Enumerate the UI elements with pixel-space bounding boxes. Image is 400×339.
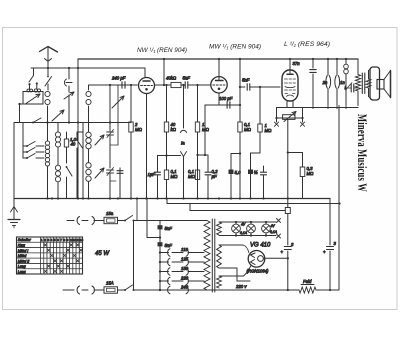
cap 240pF [121,82,123,88]
output transformer primary left wire [345,59,347,64]
svg-text:VG 410: VG 410 [250,243,271,249]
svg-text:Minerva Musicus W: Minerva Musicus W [355,114,369,192]
svg-text:Lang: Lang [18,270,26,274]
svg-text:40: 40 [71,142,76,147]
output tube top wire [289,59,291,73]
rectifier lower wire [219,267,237,269]
pickup connector Ia [183,85,185,128]
padder trimmer C6 [109,123,111,132]
svg-text:Mittel I: Mittel I [18,249,29,253]
coil L2 [45,91,50,96]
dial lamp 1 [232,224,241,233]
svg-text:45 W: 45 W [95,251,110,257]
tube V2 cathode [218,93,220,105]
vertical from grid wire [109,85,111,123]
svg-text:15A: 15A [106,281,114,286]
svg-text:½: ½ [254,170,258,175]
cathode resistor 197 [195,170,199,180]
secondary winding lamps [217,222,222,235]
svg-text:MΩ: MΩ [188,174,196,179]
svg-text:5nF: 5nF [242,78,250,83]
cap small right [263,166,265,172]
svg-text:15a: 15a [106,211,114,216]
svg-text:1µF: 1µF [148,172,156,177]
trimmer arrow C4 [95,135,104,145]
mains vertical pair [133,221,135,291]
lamp wires [219,221,276,223]
tube V2 REN904 [211,77,227,93]
svg-text:7: 7 [60,238,62,242]
svg-text:5,0: 5,0 [235,170,242,175]
trimmer cap C2 variable [64,92,74,99]
svg-text:2: 2 [44,238,46,242]
coupling cap 5nF-2 [246,84,248,90]
wire antenna to switch [31,67,48,69]
svg-text:4: 4 [51,238,53,242]
decoupling cap top right [312,59,314,68]
svg-text:100 pF: 100 pF [219,96,233,101]
svg-text:MΩ: MΩ [171,174,179,179]
rectifier plate wire [219,244,243,246]
svg-text:5: 5 [54,238,56,242]
band switch contacts row [22,123,24,159]
pickup terminal right [302,108,304,123]
svg-text:13: 13 [80,238,84,242]
chassis drop [146,199,148,238]
filter cap 1 [287,214,289,246]
secondary winding HT [217,245,222,268]
plate feed vertical [163,59,165,85]
cathode group wire [158,155,181,157]
trimmer arrow C5 [95,168,104,178]
transformer core 2 [211,219,213,292]
svg-text:Schalter: Schalter [18,238,32,242]
stub wire 2 [110,180,116,182]
grid cap wire across [48,67,145,69]
svg-text:NW ¹/₁ (REN 904): NW ¹/₁ (REN 904) [137,48,187,54]
switch S3 [32,122,34,124]
svg-text:125: 125 [181,257,189,262]
mains switch bottom [124,289,126,291]
svg-text:MΩ: MΩ [307,171,315,176]
svg-text:0,1A: 0,1A [240,231,248,235]
resistor 0,1M a [164,170,168,180]
output transformer primary winding [357,59,359,75]
svg-text:4V: 4V [271,224,276,228]
wire to cap [198,154,209,156]
fuse 15A bottom [104,287,118,293]
secondary winding heater [217,276,222,288]
line cap 5nF a [158,225,163,229]
svg-text:Kurz: Kurz [18,243,26,247]
cap row a [119,168,121,170]
svg-text:Ia: Ia [181,141,185,146]
switch S5 [76,139,78,141]
coupling wire to output tube [240,86,245,88]
plate load resistor 40k [155,84,172,86]
cap 100pF [226,102,228,108]
antenna [40,47,58,53]
rectifier output wire [263,257,287,259]
svg-text:Mittel II: Mittel II [18,259,30,263]
bias rail [190,210,285,212]
coil L5 upper [57,123,59,133]
tube V1 REN904 [139,78,155,94]
antenna coil unit L1 box [23,92,43,105]
B+ vertical right [338,106,340,291]
screen dropper vertical [239,59,241,122]
transformer secondary [368,71,370,80]
svg-text:Lang: Lang [18,265,26,269]
vertical bus from top bus [77,59,79,199]
svg-text:kΩ: kΩ [171,127,177,132]
speaker frame [370,67,380,100]
svg-text:150: 150 [181,266,189,271]
svg-text:MW ¹/₁ (REN 904): MW ¹/₁ (REN 904) [209,45,261,51]
cap blob 0,1b [251,152,261,154]
primary tone cap [346,87,351,89]
svg-text:MΩ: MΩ [135,127,143,132]
svg-text:(RGN1064): (RGN1064) [247,269,270,274]
B+ fuse box [285,208,290,214]
svg-text:µF: µF [212,174,217,179]
coupling cap 5nF [184,82,186,88]
output cathode rail [277,107,359,109]
variable core arrow [26,94,40,104]
switch S1 antenna [33,68,35,76]
svg-text:5nF: 5nF [165,226,173,231]
tone pot [283,115,295,120]
grid resistor 1M output [259,87,261,124]
pickup connector row [67,220,74,222]
coil L3 [88,85,90,90]
svg-text:0,1A: 0,1A [270,230,278,234]
svg-text:1: 1 [41,238,43,242]
band table [17,237,83,274]
svg-text:8: 8 [64,238,66,242]
line cap 5nF b [158,242,163,246]
svg-text:6: 6 [57,238,59,242]
filter cap 2 [327,246,334,248]
svg-text:37n: 37n [293,61,301,66]
svg-text:220 v: 220 v [235,284,247,289]
wave band wire [23,122,131,124]
svg-text:5nF: 5nF [183,76,191,81]
switch S2 [47,68,49,76]
speaker driver [377,80,384,90]
tone caps 2n [327,59,329,75]
output tube legs [286,101,288,108]
bottom rail / field coil [134,289,300,291]
svg-text:220: 220 [180,276,189,281]
cathode network wire [205,104,240,106]
svg-text:L ¹/₁ (RES 964): L ¹/₁ (RES 964) [284,42,330,48]
svg-text:9: 9 [67,238,69,242]
power transformer primary [204,221,210,291]
speaker cone [384,71,391,80]
tube V2 plate feed [218,59,220,80]
svg-text:MΩ: MΩ [244,127,252,132]
coil L5 lower [55,165,60,170]
svg-text:240: 240 [180,285,189,290]
fuse 15a [104,217,118,223]
top B+ bus [78,58,358,60]
selector bus [159,221,161,291]
voltage taps [159,251,161,253]
pickup terminal left [276,108,278,123]
switch S4 [66,167,68,177]
ground symbol [13,199,15,220]
trimmer C1 1/10 [68,68,70,79]
lamp terminal x2 [277,234,281,238]
mains switch top [124,220,126,222]
grid resistor 2M [130,85,132,122]
tuning cap arrow C8 [112,96,124,108]
left vertical to ground rail [13,123,15,199]
tuning gang arrow C3 [52,110,64,121]
transformer core [361,73,363,94]
resistor 1/10 [66,132,68,139]
cap 0,2uF [207,155,209,172]
output tube V3 RES964 [282,70,298,101]
dial lamp 3 [262,224,271,233]
svg-text:Feld: Feld [303,279,312,284]
AVC rail [167,203,340,205]
svg-text:Mittel: Mittel [18,254,27,258]
coil L4 long wave [47,123,49,142]
coil L6 lower [86,163,91,168]
tube V1 grid cap wire [144,68,146,77]
mains cord row [63,289,74,291]
svg-text:MΩ: MΩ [265,128,273,133]
resistor 0,3M [302,153,304,168]
dial lamp 2 [247,224,256,233]
tone pot wire [277,117,303,119]
grid leak resistor 1M [197,85,199,122]
bias rail step [189,204,191,211]
svg-text:240 pF: 240 pF [111,76,126,81]
box output wire [18,103,20,105]
coil L1a [27,89,30,92]
pot wiper drop [287,119,289,207]
wire grid line tube1 [89,84,138,86]
lamp terminal x1 [277,219,281,223]
padder trimmer C7 [107,169,114,171]
ground rail [14,198,330,200]
cap 1uF [157,156,159,172]
AVC rail step [166,199,168,204]
long vertical x83 [82,123,84,199]
svg-text:5nF: 5nF [165,243,173,248]
bias wire [288,152,303,154]
svg-text:4V: 4V [241,223,246,227]
stub wire [110,144,118,146]
svg-text:110: 110 [181,247,188,252]
resistor 40k vertical [166,85,168,122]
svg-text:40kΩ: 40kΩ [166,76,177,81]
svg-text:3: 3 [47,238,49,242]
tube V1 cathode down [146,94,148,199]
svg-text:MΩ: MΩ [202,127,210,132]
coil L1b [34,89,37,92]
cap blob 5,0 [231,153,240,155]
coil L6 upper [88,131,90,133]
svg-text:2n: 2n [322,80,328,85]
